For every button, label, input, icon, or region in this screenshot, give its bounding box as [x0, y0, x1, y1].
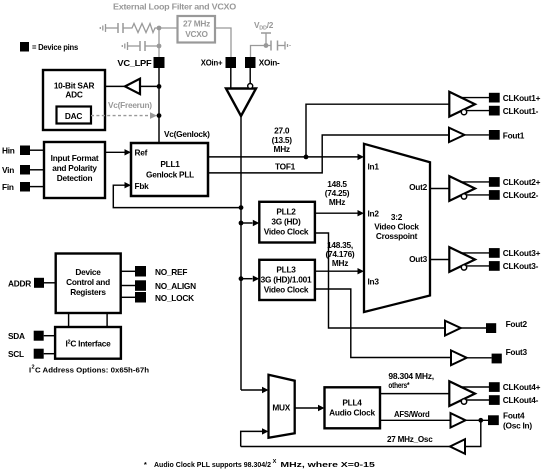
- capacitor C3 (XO bias decoupling): [271, 41, 278, 51]
- wire: [145, 45, 159, 47]
- svg-text:CLKout3-: CLKout3-: [503, 261, 539, 271]
- svg-text:MHz: MHz: [329, 197, 345, 207]
- svg-text:Crosspoint: Crosspoint: [376, 231, 418, 241]
- svg-text:TOF1: TOF1: [275, 162, 296, 172]
- svg-text:Ref: Ref: [135, 148, 148, 158]
- svg-text:Detection: Detection: [57, 173, 93, 183]
- node junction loop filter: [157, 26, 162, 31]
- buffer Fout1: [449, 128, 489, 142]
- svg-text:CLKout2-: CLKout2-: [503, 190, 539, 200]
- ground (XO bias): [285, 42, 290, 50]
- pin XOin+: [201, 57, 236, 68]
- svg-text:CLKout4-: CLKout4-: [503, 395, 539, 405]
- wire Input Format to PLL1 Ref: [105, 149, 131, 155]
- buffer CLKout4 (differential output driver): [449, 381, 489, 406]
- wire: [128, 45, 140, 47]
- svg-text:Fout1: Fout1: [503, 130, 525, 140]
- I2C Interface box: [55, 327, 121, 359]
- svg-text:AFS/Word: AFS/Word: [394, 409, 430, 419]
- svg-text:SCL: SCL: [8, 349, 24, 359]
- pin CLKout2-: [489, 190, 539, 200]
- legend device pin square: [20, 42, 79, 52]
- ADC box (10-Bit SAR ADC): [43, 70, 105, 130]
- buffer Fout3: [451, 350, 492, 365]
- svg-text:Out2: Out2: [409, 182, 428, 192]
- svg-text:PLL4: PLL4: [342, 398, 362, 408]
- svg-text:NO_LOCK: NO_LOCK: [155, 293, 194, 303]
- wire PLL2 to crosspoint In2: [315, 210, 364, 216]
- svg-text:PLL1: PLL1: [160, 159, 180, 169]
- net label 27.0 (13.5) MHz: [272, 126, 293, 154]
- svg-text:Fin: Fin: [2, 182, 14, 192]
- wire VC_LPF vertical: [158, 28, 160, 57]
- wire PLL3 to crosspoint In3: [315, 268, 364, 274]
- capacitor C2 (loop filter): [140, 41, 145, 51]
- node junction Vdd2: [264, 43, 269, 48]
- svg-text:Control and: Control and: [66, 277, 110, 287]
- svg-text:27 MHz_Osc: 27 MHz_Osc: [387, 434, 433, 444]
- svg-text:Audio Clock PLL supports 98.30: Audio Clock PLL supports 98.304/2: [154, 460, 271, 469]
- svg-text:Video Clock: Video Clock: [374, 222, 419, 232]
- wires Device Control to I2C: [68, 313, 70, 327]
- wire PLL3 to Fout3 buffer: [315, 289, 451, 358]
- ground (loop filter row 1): [100, 24, 105, 32]
- node junction PLL3 ref: [239, 276, 244, 281]
- wire: [123, 27, 130, 29]
- svg-text:NO_ALIGN: NO_ALIGN: [155, 281, 196, 291]
- pin Fout3: [492, 347, 528, 364]
- svg-text:Vc(Freerun): Vc(Freerun): [108, 100, 152, 110]
- buffer 27MHz osc (left-pointing): [450, 439, 465, 454]
- pin Fout1: [489, 130, 525, 140]
- pin Hin: [2, 146, 44, 156]
- buffer CLKout2 (differential output driver): [449, 176, 489, 201]
- svg-text:(Osc In): (Osc In): [503, 420, 532, 430]
- PLL1 Genlock PLL box: [131, 143, 208, 196]
- svg-text:SDA: SDA: [8, 331, 25, 341]
- svg-text:PLL2: PLL2: [276, 206, 296, 216]
- node junction Fout4/osc: [478, 418, 483, 423]
- pin Vin: [2, 165, 44, 175]
- I2C address note: [29, 365, 149, 375]
- svg-text:MHz: MHz: [274, 144, 290, 154]
- svg-text:Fout4: Fout4: [503, 410, 525, 420]
- pin Fout4 (Osc In): [488, 410, 532, 430]
- wire ADC input: [105, 85, 125, 87]
- pin CLKout2+: [489, 177, 541, 187]
- pin CLKout4+: [489, 382, 541, 392]
- ground (loop filter row 2): [122, 42, 127, 50]
- pin VC_LPF: [117, 57, 164, 68]
- Vc(Freerun) dashed wire from DAC: [91, 100, 157, 119]
- svg-text:Vc(Genlock): Vc(Genlock): [164, 129, 210, 139]
- wire XOin- to XO buffer bubble: [249, 68, 251, 84]
- wire osc return to MUX bottom input: [241, 428, 269, 446]
- wire osc to MUX return: [241, 446, 450, 448]
- Input Format and Polarity Detection box: [44, 142, 105, 198]
- pin SCL: [8, 349, 55, 360]
- wire PLL4 to CLKout4 buffer: [380, 393, 449, 395]
- svg-text:Fout2: Fout2: [506, 319, 528, 329]
- svg-text:NO_REF: NO_REF: [155, 267, 187, 277]
- svg-text:PLL3: PLL3: [276, 264, 296, 274]
- pin Fout2: [486, 319, 528, 333]
- pin Fin: [2, 182, 44, 192]
- svg-text:External Loop Filter and VCXO: External Loop Filter and VCXO: [113, 2, 237, 12]
- svg-text:I2C Interface: I2C Interface: [65, 339, 111, 349]
- footnote: [144, 459, 376, 469]
- svg-text:Audio Clock: Audio Clock: [329, 408, 375, 418]
- buffer Fout4: [451, 413, 489, 427]
- pin CLKout4-: [489, 395, 539, 405]
- svg-text:VCXO: VCXO: [185, 29, 208, 39]
- buffer Fout2: [445, 321, 486, 336]
- Device Control and Registers box: [56, 254, 121, 314]
- svg-text:MHz: MHz: [332, 258, 348, 268]
- node junction Vc/buffer: [157, 84, 162, 89]
- wire crosspoint Out3 to CLKout3 buffer: [430, 259, 449, 261]
- pin CLKout3-: [489, 261, 539, 271]
- svg-text:ADC: ADC: [65, 90, 82, 100]
- wire XOin+ to XO buffer: [230, 68, 232, 88]
- wire: [278, 45, 286, 47]
- pin NO_LOCK: [135, 292, 194, 303]
- pin NO_REF: [135, 266, 187, 277]
- svg-text:X: X: [273, 459, 277, 465]
- node junction PLL2 ref: [239, 221, 244, 226]
- svg-text:3G (HD): 3G (HD): [271, 217, 301, 227]
- capacitor C1 (loop filter): [118, 23, 123, 33]
- svg-text:others*: others*: [388, 380, 410, 390]
- wire PLL1 out 27MHz to crosspoint In1: [208, 154, 364, 160]
- wire NO_LOCK: [121, 296, 135, 298]
- svg-text:MHz, where X=0-15: MHz, where X=0-15: [280, 460, 375, 469]
- pin CLKout1+: [489, 93, 541, 103]
- net label 148.35, (74.176) MHz: [326, 240, 355, 268]
- pin ADDR: [8, 278, 56, 289]
- wire crosspoint Out2 to CLKout2 buffer: [430, 188, 449, 190]
- node junction Vc freerun: [157, 113, 162, 118]
- svg-text:= Device pins: = Device pins: [32, 42, 79, 52]
- svg-text:MUX: MUX: [272, 402, 290, 412]
- wire Vdd2 to XOin-: [251, 46, 271, 58]
- wire 27MHz to MUX top input: [241, 387, 269, 393]
- buffer CLKout3 (differential output driver): [449, 247, 489, 272]
- node junction CLKout1 branch: [304, 155, 309, 160]
- pin SDA: [8, 331, 55, 342]
- svg-text:VC_LPF: VC_LPF: [117, 58, 151, 68]
- svg-text:XOin+: XOin+: [201, 58, 223, 68]
- svg-text:CLKout4+: CLKout4+: [503, 382, 541, 392]
- svg-text:In2: In2: [368, 209, 380, 219]
- svg-text:C Address Options: 0x65h-67h: C Address Options: 0x65h-67h: [35, 366, 149, 375]
- buffer CLKout1 (differential output driver): [449, 92, 489, 117]
- svg-text:Vin: Vin: [2, 165, 14, 175]
- PLL2 3G (HD) Video Clock box: [259, 202, 315, 243]
- power Vdd/2 supply: [254, 20, 274, 46]
- svg-text:CLKout1-: CLKout1-: [503, 106, 539, 116]
- svg-text:*: *: [144, 460, 147, 469]
- svg-text:ADDR: ADDR: [8, 278, 31, 288]
- svg-text:Fbk: Fbk: [135, 181, 150, 191]
- crosspoint 3:2 Video Clock Crosspoint: [364, 144, 430, 312]
- pin CLKout1-: [489, 106, 539, 116]
- svg-text:CLKout1+: CLKout1+: [503, 93, 541, 103]
- crystal oscillator input buffer: [226, 84, 256, 117]
- wire into PLL2: [241, 220, 259, 226]
- wire osc feedback down: [465, 420, 481, 446]
- svg-text:Registers: Registers: [70, 287, 106, 297]
- svg-text:CLKout3+: CLKout3+: [503, 248, 541, 258]
- wire into PLL3: [241, 276, 259, 282]
- PLL4 Audio Clock box: [325, 387, 381, 428]
- pin XOin-: [245, 57, 280, 68]
- svg-text:XOin-: XOin-: [259, 58, 280, 68]
- buffer U2 (Vc sense, left-pointing): [125, 79, 140, 94]
- svg-text:Genlock PLL: Genlock PLL: [146, 170, 194, 180]
- resistor R1 (loop filter): [130, 24, 159, 33]
- DAC box: [57, 107, 92, 124]
- wire VCXO out to XOin+: [215, 28, 231, 57]
- net label 98.304 MHz, others*: [388, 371, 434, 390]
- pin CLKout3+: [489, 248, 541, 258]
- svg-text:DAC: DAC: [65, 111, 82, 121]
- svg-text:Fout3: Fout3: [506, 347, 528, 357]
- wire PLL2 to Fout2 buffer: [315, 233, 445, 328]
- wire VC_LPF down to PLL1: [158, 68, 160, 143]
- svg-text:27 MHz: 27 MHz: [183, 19, 210, 29]
- svg-text:CLKout2+: CLKout2+: [503, 177, 541, 187]
- wire to VCXO: [159, 27, 177, 29]
- node junction row2: [157, 44, 162, 49]
- svg-text:Device: Device: [75, 267, 101, 277]
- PLL3 3G (HD)/1.001 Video Clock box: [259, 260, 315, 300]
- svg-text:Hin: Hin: [2, 146, 15, 156]
- wire NO_ALIGN: [121, 285, 135, 287]
- pin NO_ALIGN: [135, 280, 196, 291]
- wire NO_REF: [121, 270, 135, 272]
- wire MUX to PLL4: [295, 405, 325, 411]
- wire XO clock down to MUX: [240, 116, 242, 390]
- wire branch up to CLKout1 buffer: [306, 104, 449, 157]
- wire PLL4 AFS/Word out: [380, 419, 451, 421]
- wire PLL1 out TOF1 to Fout1 buffer: [208, 135, 449, 173]
- svg-text:3:2: 3:2: [391, 212, 403, 222]
- svg-text:Out3: Out3: [409, 254, 428, 264]
- svg-text:and Polarity: and Polarity: [52, 163, 97, 173]
- wire PLL1 Fbk loop: [113, 182, 241, 208]
- svg-text:Input Format: Input Format: [51, 153, 99, 163]
- svg-text:In3: In3: [368, 277, 380, 287]
- svg-text:Video Clock: Video Clock: [264, 227, 309, 237]
- VCXO box (27 MHz VCXO): [178, 16, 216, 43]
- net label 148.5 (74.25) MHz: [325, 179, 350, 207]
- wire: [106, 27, 118, 29]
- wire buffer to Vc node: [140, 85, 159, 87]
- svg-text:3G (HD)/1.001: 3G (HD)/1.001: [261, 274, 312, 284]
- svg-text:Video Clock: Video Clock: [264, 284, 309, 294]
- svg-text:In1: In1: [368, 161, 380, 171]
- node junction Fbk/27MHz: [239, 205, 244, 210]
- MUX trapezoid: [269, 375, 295, 438]
